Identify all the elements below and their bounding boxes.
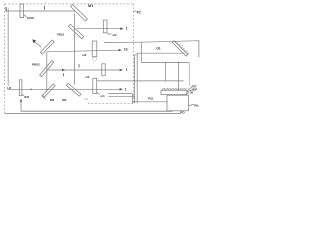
- lens circle: [93, 57, 97, 61]
- quarter-wave plate W4: [93, 78, 97, 93]
- wire: top right horizontal: [104, 41, 199, 58]
- svg-text:λ/2: λ/2: [85, 75, 89, 79]
- arrow up to laser box: [20, 100, 22, 111]
- mirror M2: [40, 40, 54, 54]
- svg-text:PBS2: PBS2: [32, 62, 40, 66]
- tick on top beam: [44, 6, 46, 10]
- svg-text:M4: M4: [62, 98, 67, 102]
- M3 pointer: [43, 95, 46, 99]
- wire: lambda/4 top wire to right: [97, 80, 184, 82]
- svg-text:M1: M1: [88, 4, 93, 8]
- half-wave plate W1: [103, 20, 107, 33]
- grating G1: [172, 41, 188, 57]
- wire: bottom beam from LD: [8, 88, 122, 90]
- beam splitter PBS2: [40, 60, 54, 76]
- wire: vertical beam M2-PBS2-M3: [46, 52, 48, 91]
- isolator ISO: [19, 80, 22, 96]
- svg-text:λ/2: λ/2: [112, 33, 117, 37]
- svg-text:Pd1: Pd1: [148, 96, 154, 100]
- tick under beam: [62, 73, 64, 76]
- wire: feedback wire B: [5, 113, 181, 115]
- svg-text:λ4: λ4: [84, 97, 88, 101]
- svg-text:PD: PD: [180, 111, 185, 115]
- svg-text:EOM: EOM: [27, 16, 34, 20]
- dashed enclosure box: [5, 4, 134, 114]
- half-wave plate W3: [102, 64, 105, 76]
- svg-text:Rb: Rb: [194, 103, 198, 107]
- svg-text:LD: LD: [7, 86, 11, 90]
- photodiode box PD1: [167, 95, 189, 111]
- wire: top beam: [7, 10, 76, 12]
- svg-text:1: 1: [125, 88, 127, 92]
- wire: beam through half-wave plate row 1: [77, 28, 122, 30]
- leader to Rb label: [189, 104, 194, 105]
- svg-text:PBS1: PBS1: [57, 32, 65, 36]
- etalon E1: [20, 4, 24, 18]
- wire: parallel return: [135, 55, 138, 104]
- junction dot on LD beam: [30, 88, 31, 90]
- svg-text:1: 1: [126, 27, 128, 31]
- svg-text:1b: 1b: [124, 48, 128, 52]
- stub to label 2: [133, 10, 136, 12]
- wire: grating beam: [137, 53, 184, 103]
- svg-text:ISO: ISO: [24, 95, 30, 99]
- hatched strip (PZT/grating mount): [161, 90, 187, 94]
- wire: lower return wires: [108, 94, 132, 104]
- mirror M1: [71, 4, 88, 21]
- svg-text:M3: M3: [50, 98, 55, 102]
- svg-text:1: 1: [126, 67, 128, 71]
- wire: feedback wire A: [21, 110, 173, 112]
- svg-text:39: 39: [190, 90, 193, 94]
- wire: LD vertical wire: [7, 11, 9, 86]
- svg-text:λ/2: λ/2: [82, 53, 87, 57]
- leaders to right labels: [187, 87, 192, 91]
- svg-text:P2: P2: [137, 10, 141, 14]
- input mirror bar: [6, 7, 7, 12]
- svg-text:G1: G1: [156, 46, 160, 50]
- wire: beam M2 to right arrow: [47, 50, 120, 52]
- svg-text:λ/4: λ/4: [100, 94, 105, 98]
- wire: beam PBS2 to right arrow: [47, 69, 121, 71]
- beam splitter PBS1: [68, 24, 83, 38]
- M2 pointer arrow: [35, 42, 42, 47]
- half-wave plate W2: [92, 41, 97, 57]
- wire: vertical beam M1 to M4: [73, 14, 75, 85]
- tick above beam: [78, 64, 80, 68]
- wire: down leg to cell: [141, 61, 189, 63]
- mirror M4: [66, 83, 81, 96]
- mirror M3: [42, 84, 55, 98]
